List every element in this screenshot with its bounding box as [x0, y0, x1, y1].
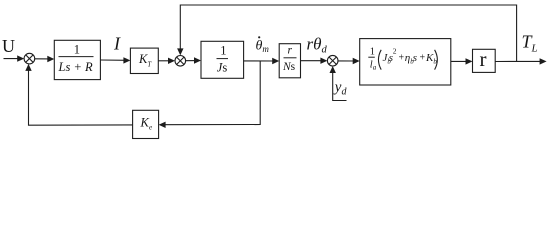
wire: S1 to block 1/(Ls+R): [35, 58, 51, 60]
wire: takeoff junction down to Ke block: [159, 61, 261, 128]
svg-text:1: 1: [220, 43, 226, 57]
block KT (torque constant): [130, 48, 158, 73]
wire: r/Ns to summing junction S3: [301, 60, 325, 62]
svg-text:la: la: [370, 60, 377, 72]
svg-text:θm: θm: [256, 39, 270, 55]
node theta_m_dot label: [256, 36, 270, 54]
node r*theta_d label: [307, 35, 328, 56]
svg-text:Ke: Ke: [140, 116, 153, 132]
wire: output from r to T_L arrow with junction at x=516.6: [495, 60, 543, 62]
svg-text:Ls + R: Ls + R: [58, 60, 94, 74]
svg-text:Ns: Ns: [282, 61, 296, 73]
svg-text:1: 1: [74, 43, 80, 57]
wire: Ke output left and up into S1: [25, 64, 132, 125]
node U input label: [2, 36, 15, 56]
svg-text:Js: Js: [217, 61, 228, 75]
svg-text:yd: yd: [333, 80, 348, 98]
block G2 1/Js: [201, 41, 244, 78]
svg-text:KT: KT: [138, 52, 152, 68]
svg-text:1: 1: [370, 47, 375, 58]
wire: G1 to KT: [100, 59, 127, 61]
summing junction S1: [24, 53, 35, 64]
block Ke (back-emf feedback): [133, 110, 159, 138]
node y_d label: [333, 80, 348, 98]
wire: S3 to block G4: [338, 60, 356, 62]
node T_L output label: [522, 32, 538, 55]
wire: S2 to block 1/Js: [186, 60, 198, 62]
svg-text:+: +: [399, 53, 405, 64]
svg-text:+: +: [420, 53, 426, 64]
wire: top feedback from output junction down into S2: [177, 5, 516, 62]
block G3 r/Ns: [279, 44, 300, 78]
svg-text:TL: TL: [522, 32, 538, 55]
block G4 (1/la)(Jb s^2 + eta_b s + Kb): [360, 39, 451, 85]
wire: input into summing junction S1: [4, 58, 22, 60]
wire: G4 to block r: [451, 60, 469, 62]
summing junction S3: [327, 55, 338, 66]
summing junction S2: [175, 56, 186, 67]
svg-text:s: s: [413, 52, 417, 64]
wire: KT to summing junction S2: [158, 60, 172, 62]
svg-text:I: I: [113, 34, 121, 54]
svg-text:Kb: Kb: [425, 52, 437, 66]
wire: y_d input from below into S3: [330, 66, 347, 101]
wire: G2 to r/Ns with takeoff junction: [244, 60, 276, 62]
node I label: [113, 34, 121, 54]
svg-text:U: U: [2, 36, 15, 56]
svg-text:rθd: rθd: [307, 35, 328, 56]
svg-text:r: r: [288, 45, 293, 57]
svg-text:2: 2: [393, 47, 397, 56]
block G1 1/(Ls+R): [54, 40, 100, 79]
block r: [473, 47, 496, 72]
svg-text:r: r: [480, 47, 487, 71]
